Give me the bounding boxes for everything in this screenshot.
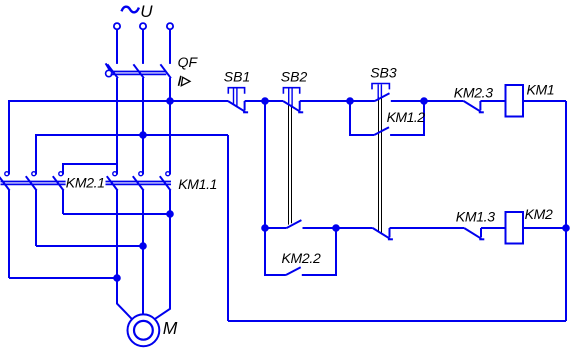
AC source squiggle xyxy=(122,7,139,13)
svg-text:KM1.3: KM1.3 xyxy=(456,208,495,224)
coil KM2 xyxy=(506,212,524,244)
wire from KM2.1 pole1 to phase3 / control row1 xyxy=(9,101,228,175)
wire crossover KM2.1 pole3 to motor lead3 xyxy=(63,213,170,215)
wire KM2.2 right side up to node E xyxy=(302,228,336,275)
wire motor lead1 xyxy=(117,190,132,319)
svg-text:KM2.1: KM2.1 xyxy=(66,174,105,190)
mechanical link of SB2 (black double line) xyxy=(289,105,292,225)
wire phase1 top xyxy=(116,29,118,64)
wire from KM2.1 pole3 to phase1 xyxy=(63,164,117,175)
wire SB3 right to node C xyxy=(391,100,424,102)
supply terminal L2 xyxy=(140,23,146,29)
junction node B xyxy=(347,98,353,104)
wire motor lead2 xyxy=(142,190,144,314)
wire SB2 lower right to node E xyxy=(303,227,337,229)
svg-text:KM1.1: KM1.1 xyxy=(178,176,217,192)
wire KM2.3 to coil KM1 xyxy=(480,100,505,102)
wire node D to SB2 lower xyxy=(265,227,287,229)
junction node crossover1 xyxy=(114,275,120,281)
button SB3 NO contact (upper) xyxy=(375,93,390,101)
wire node C to KM2.3 xyxy=(424,100,464,102)
junction node A xyxy=(262,98,268,104)
wire node A down to row2 xyxy=(264,101,266,228)
svg-text:KM1.2: KM1.2 xyxy=(387,109,426,125)
wire KM2.1 pole2 bottom xyxy=(35,190,37,246)
circuit breaker QF handle stub xyxy=(106,63,110,70)
wire node A to SB2 xyxy=(265,100,283,102)
svg-text:QF: QF xyxy=(178,54,199,70)
contactor KM1.1 linkage bar xyxy=(106,182,172,185)
button SB1 NC contact xyxy=(228,101,245,112)
wire KM2.1 pole3 bottom xyxy=(62,190,64,214)
junction node C xyxy=(421,98,427,104)
wire KM1.2 right side up to node C xyxy=(390,101,424,135)
circuit breaker QF pole1 blade xyxy=(107,64,118,78)
junction node crossover3 xyxy=(167,211,173,217)
svg-text:KM2.2: KM2.2 xyxy=(282,250,321,266)
wire KM2.1 pole1 bottom xyxy=(8,190,10,278)
auxiliary contact KM2.2 branch left xyxy=(265,228,286,275)
circuit breaker QF pole2 blade xyxy=(133,64,144,78)
contact KM1.2 NO blade xyxy=(374,127,389,135)
wire phase2 top xyxy=(142,29,144,64)
junction node phase2 control return xyxy=(140,132,146,138)
wire SB1 right to node A xyxy=(245,100,265,102)
wire crossover KM2.1 pole1 to motor lead1 xyxy=(9,277,117,279)
circuit breaker QF mechanism circle xyxy=(106,70,112,76)
wire phase1 middle xyxy=(116,78,118,175)
junction node E xyxy=(333,225,339,231)
motor M outer circle xyxy=(127,314,159,346)
contactor KM2.1 pole3 contact xyxy=(59,172,63,176)
circuit breaker QF linkage bar xyxy=(111,72,167,75)
motor M inner circle xyxy=(134,321,153,340)
supply terminal L1 xyxy=(114,23,120,29)
junction node right rail row2 xyxy=(563,225,569,231)
contactor KM1.1 pole1 contact xyxy=(113,172,117,176)
svg-text:U: U xyxy=(140,2,153,21)
button SB2 NC contact (upper) xyxy=(283,101,300,112)
wire phase2 middle xyxy=(142,78,144,175)
svg-text:KM1: KM1 xyxy=(527,82,555,98)
wire phase3 top xyxy=(169,29,171,64)
coil KM1 xyxy=(506,85,524,117)
junction node D row2 left xyxy=(262,225,268,231)
auxiliary contact KM1.2 branch xyxy=(350,101,374,135)
svg-text:KM2: KM2 xyxy=(525,206,553,222)
button SB2 cap bracket xyxy=(283,88,299,94)
svg-text:M: M xyxy=(163,318,178,338)
button SB2 NO contact (lower) xyxy=(287,220,302,228)
contactor KM2.1 pole1 contact xyxy=(5,172,9,176)
mechanical link of SB3 (black double line) xyxy=(379,97,382,234)
svg-text:SB3: SB3 xyxy=(370,65,397,81)
label I> overcurrent xyxy=(179,76,191,86)
button SB3 NC contact (lower) xyxy=(373,228,390,239)
contactor KM2.1 linkage bar xyxy=(1,182,66,185)
button SB3 cap bracket xyxy=(372,84,389,90)
svg-text:KM2.3: KM2.3 xyxy=(454,85,493,101)
wire bottom rail xyxy=(228,320,566,322)
wire crossover KM2.1 pole2 to motor lead2 xyxy=(36,245,143,247)
contactor KM2.1 pole2 contact xyxy=(32,172,36,176)
wire phase3 middle xyxy=(169,78,171,175)
svg-text:SB2: SB2 xyxy=(281,69,308,85)
wire coil KM1 to right rail xyxy=(523,100,566,102)
wire left control rail xyxy=(227,135,229,321)
circuit breaker QF pole3 blade xyxy=(160,64,171,78)
supply terminal L3 xyxy=(167,23,173,29)
contactor KM1.1 pole3 contact xyxy=(166,172,170,176)
junction node crossover2 xyxy=(140,243,146,249)
contact KM1.3 NC xyxy=(464,228,481,239)
wire right rail xyxy=(565,101,567,321)
wire from KM2.1 pole2 to phase2 / control return xyxy=(36,135,228,175)
button SB1 cap bracket xyxy=(228,88,244,94)
wire KM1.3 to coil KM2 xyxy=(481,227,506,229)
contact KM2.2 NO blade xyxy=(286,267,301,275)
junction node phase3 row1 xyxy=(167,98,173,104)
wire node E to SB3 lower xyxy=(336,227,373,229)
contact KM2.3 NC xyxy=(464,101,481,112)
wire coil KM2 to right rail xyxy=(523,227,566,229)
wire node B to SB3 xyxy=(350,100,375,102)
wire SB3 lower to KM1.3 xyxy=(390,227,465,229)
contactor KM1.1 pole2 contact xyxy=(139,172,143,176)
wire SB2 right to node B xyxy=(300,100,350,102)
svg-text:SB1: SB1 xyxy=(224,69,250,85)
wire motor lead3 xyxy=(155,190,170,319)
